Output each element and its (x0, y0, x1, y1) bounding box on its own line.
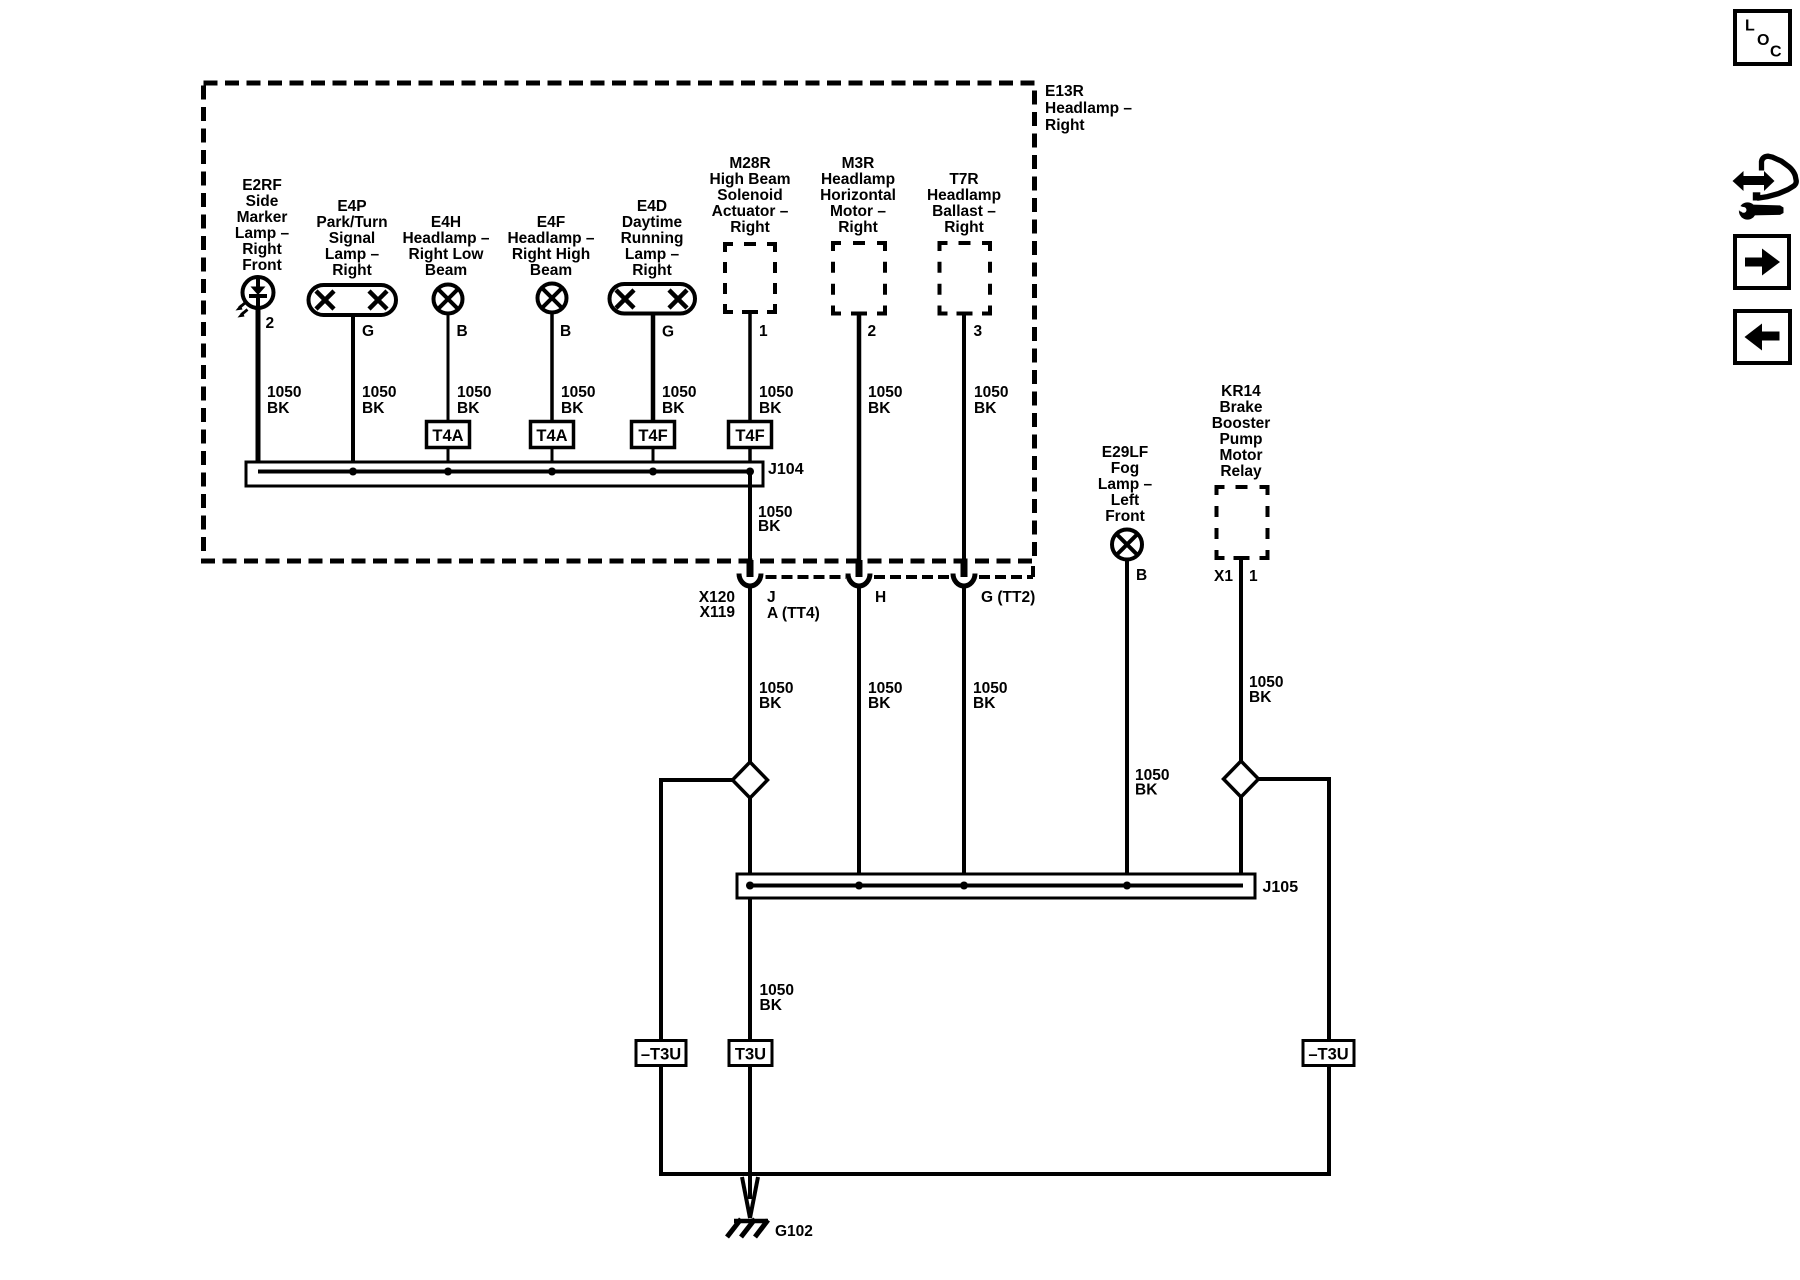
wire E2RF to J104 (256, 309, 261, 471)
splice pack J104 (246, 462, 763, 486)
splice diamond right (1224, 761, 1259, 797)
lamp E4D daytime running symbol (610, 284, 696, 314)
wire J104 down to connector X120 (748, 471, 752, 562)
connector T4A (E4F) (531, 422, 574, 448)
connector arc pin H (848, 574, 870, 586)
icon arrow right box (1735, 236, 1789, 288)
wire connector to splice (main) (748, 585, 752, 763)
svg-text:G: G (662, 324, 674, 341)
lamp E4F high beam symbol (538, 284, 567, 313)
svg-text:T4A: T4A (432, 427, 463, 445)
svg-text:G (TT2): G (TT2) (981, 589, 1035, 606)
svg-text:–T3U: –T3U (641, 1046, 681, 1064)
svg-text:B: B (1136, 567, 1147, 584)
svg-text:O: O (1757, 32, 1769, 49)
wire splice to right branch (1259, 779, 1330, 1039)
connector -T3U left (636, 1041, 686, 1066)
lamp E4P park/turn symbol (309, 285, 397, 315)
svg-text:J105: J105 (1263, 879, 1299, 896)
splice diamond left (733, 762, 768, 798)
svg-text:H: H (875, 589, 886, 606)
wire right T3U to bottom (1327, 1067, 1331, 1176)
svg-text:–T3U: –T3U (1308, 1046, 1348, 1064)
svg-text:E2RFSideMarkerLamp –RightFront: E2RFSideMarkerLamp –RightFront (235, 177, 290, 274)
wire T4F to J104 (E4D) (652, 448, 655, 471)
connector arc pin G (TT2) (953, 574, 975, 586)
svg-text:T4F: T4F (735, 427, 764, 445)
lamp E29LF fog lamp symbol (1112, 530, 1142, 560)
icon arrow left box (1735, 311, 1790, 363)
svg-text:G: G (362, 323, 374, 340)
connector dotted line (766, 561, 1034, 577)
connector T3U center (729, 1041, 772, 1066)
wire E4F to T4A (550, 312, 554, 422)
splice pack J105 (737, 874, 1255, 898)
svg-text:E29LFFogLamp –LeftFront: E29LFFogLamp –LeftFront (1098, 444, 1153, 525)
wire E4H to T4A (447, 313, 450, 422)
wire T7R mid (962, 585, 966, 885)
wire E4P to J104 (351, 317, 355, 471)
motor M3R dashed box (833, 243, 885, 314)
wire E29LF down to J105 (1125, 560, 1129, 886)
wire E4D to T4F (651, 313, 656, 422)
actuator M28R dashed box (725, 244, 775, 312)
svg-text:G102: G102 (775, 1223, 813, 1240)
wire center T3U to ground (748, 1067, 752, 1199)
svg-text:2: 2 (868, 323, 877, 340)
wire M28R to T4F (748, 312, 752, 422)
wire KR14 splice down to J105 (1239, 797, 1243, 885)
svg-text:C: C (1770, 44, 1782, 61)
connector stub G (TT2) (961, 560, 968, 577)
ballast T7R dashed box (940, 243, 991, 314)
svg-text:X1: X1 (1214, 568, 1233, 585)
ground G102 symbol (727, 1177, 768, 1237)
svg-text:B: B (457, 323, 468, 340)
svg-text:B: B (560, 323, 571, 340)
svg-text:T4F: T4F (638, 427, 667, 445)
relay KR14 dashed box (1217, 487, 1268, 558)
wire KR14 down to splice (1239, 558, 1243, 763)
lamp E4H low beam symbol (434, 285, 463, 314)
connector T4F (M28R) (729, 422, 772, 448)
wire M3R down to J105 (857, 313, 862, 561)
wire T4A to J104 (447, 448, 450, 471)
wire M3R mid (857, 585, 861, 885)
svg-text:J104: J104 (768, 461, 804, 478)
connector -T3U right (1303, 1041, 1354, 1066)
svg-text:L: L (1745, 18, 1755, 35)
lamp E2RF side marker symbol (236, 276, 274, 318)
svg-text:T4A: T4A (536, 427, 567, 445)
wire splice to left branch (661, 780, 733, 1039)
connector T4A (E4H) (427, 422, 470, 448)
icon vehicle double-arrow with wrench (1733, 156, 1797, 219)
wire splice down to J105 (748, 798, 752, 874)
svg-text:1: 1 (759, 323, 768, 340)
svg-text:X120X119: X120X119 (699, 589, 736, 621)
E13R Headlamp Right dashed box (204, 83, 1035, 561)
wire T4F to J104 (M28R) (748, 448, 752, 464)
svg-text:T3U: T3U (735, 1046, 766, 1064)
connector stub J (X120) (747, 560, 754, 577)
wire bottom horizontal (659, 1172, 1331, 1176)
wire T4A to J104 (E4F) (551, 448, 554, 471)
svg-text:3: 3 (974, 323, 983, 340)
wire left T3U to bottom (659, 1067, 663, 1176)
connector arc X120/X119 pin J (739, 574, 761, 586)
svg-text:2: 2 (266, 315, 275, 332)
connector T4F (E4D) (632, 422, 675, 448)
wire T7R down to J105 (962, 313, 966, 561)
icon LOC box (1735, 11, 1790, 64)
connector stub H (856, 560, 863, 577)
svg-text:1: 1 (1249, 568, 1258, 585)
wire J105 down to T3U (748, 898, 752, 1039)
